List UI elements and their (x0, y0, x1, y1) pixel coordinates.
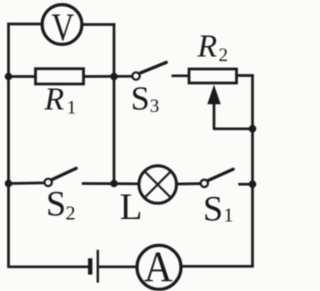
svg-text:1: 1 (67, 98, 77, 119)
node middle row center (110, 180, 118, 188)
battery negative plate (88, 258, 92, 274)
svg-text:1: 1 (224, 205, 234, 227)
svg-text:3: 3 (150, 96, 160, 117)
wire R1 row right (84, 75, 133, 78)
svg-text:S: S (131, 81, 150, 118)
battery positive plate (97, 250, 99, 283)
svg-text:S: S (46, 184, 66, 224)
svg-text:V: V (52, 6, 75, 49)
switch S3 (132, 62, 166, 79)
switch S1 (201, 169, 234, 187)
wire right vertical (251, 74, 254, 267)
node middle row left (5, 180, 13, 188)
wire S3 to R2 (172, 74, 190, 77)
resistor R1 (36, 69, 84, 84)
wire slider to right node (213, 127, 253, 130)
voltmeter V (42, 5, 82, 49)
rheostat slider arrow head (207, 85, 220, 105)
rheostat R2 (189, 69, 237, 83)
svg-text:S: S (203, 188, 223, 228)
svg-text:A: A (144, 243, 173, 291)
wire left vertical (7, 23, 10, 268)
lamp L (139, 166, 177, 204)
svg-text:L: L (120, 187, 143, 228)
svg-text:R: R (197, 28, 218, 64)
wire top-left horizontal (7, 23, 42, 26)
wire bottom left to battery (9, 265, 89, 268)
node at R1 row left (5, 73, 13, 81)
wire S2 to lamp (82, 182, 138, 185)
svg-text:R: R (44, 80, 65, 116)
svg-text:2: 2 (66, 203, 76, 225)
wire top-right horizontal (83, 23, 116, 26)
wire S1 to right node (238, 183, 252, 186)
ammeter A (137, 243, 181, 291)
wire lamp to S1 (176, 182, 201, 185)
wire middle vertical (113, 23, 116, 183)
node slider junction (249, 125, 257, 133)
wire ammeter to bottom right (181, 265, 254, 268)
wire R2 to right corner (236, 74, 254, 77)
node S1 right (249, 180, 257, 188)
node at R1 row right (110, 73, 118, 81)
switch S2 (45, 168, 77, 186)
svg-text:2: 2 (219, 45, 229, 66)
wire middle row left (9, 182, 45, 185)
wire rheostat slider stem (213, 100, 216, 129)
wire R1 row left (9, 75, 36, 78)
wire battery to ammeter (99, 265, 137, 268)
